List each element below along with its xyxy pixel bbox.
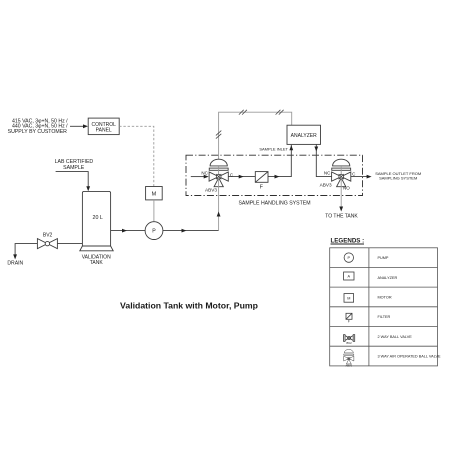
pump P [145, 222, 163, 240]
svg-text:M: M [347, 296, 350, 300]
wire: NC stub into ABV3-1 [191, 176, 205, 178]
svg-text:ABV3: ABV3 [345, 364, 352, 368]
wire: tank to BV2 [57, 243, 82, 245]
svg-text:Validation Tank with Motor, Pu: Validation Tank with Motor, Pump [120, 301, 258, 311]
supply label 415/440 VAC [8, 118, 69, 135]
sample handling system box (dash-dot) [186, 155, 363, 195]
svg-text:SAMPLING SYSTEM: SAMPLING SYSTEM [379, 176, 417, 181]
svg-text:NO: NO [343, 186, 350, 191]
svg-text:SAMPLE HANDLING SYSTEM: SAMPLE HANDLING SYSTEM [238, 200, 310, 206]
svg-text:ABV3: ABV3 [320, 183, 332, 188]
svg-text:ANALYZER: ANALYZER [291, 133, 317, 139]
svg-text:ANALYZER: ANALYZER [378, 276, 398, 280]
svg-text:SAMPLE: SAMPLE [63, 165, 85, 171]
air line break marks [216, 110, 284, 139]
wire: motor to pump [153, 200, 155, 222]
control panel box [88, 118, 119, 135]
svg-text:FILTER: FILTER [378, 315, 391, 319]
wire: ABV3-2 C to sample outlet [351, 176, 368, 178]
svg-text:TANK: TANK [90, 260, 104, 266]
legend 2-way ball valve symbol [345, 336, 349, 341]
valve ABV3-1 center [216, 174, 221, 179]
legend filter symbol [346, 313, 352, 319]
svg-text:A: A [348, 274, 351, 278]
wire: sample to tank [56, 172, 89, 187]
svg-text:F: F [348, 320, 350, 324]
analyzer box [287, 125, 321, 144]
wire: analyzer to ABV3-2 [316, 144, 331, 176]
motor M [146, 187, 163, 200]
wire: tank to pump [111, 230, 145, 232]
wire: ABV3-1 to filter [228, 176, 255, 178]
filter F [255, 172, 268, 183]
svg-text:LAB CERTIFIED: LAB CERTIFIED [55, 159, 94, 165]
legend table frame [330, 248, 438, 366]
wire: ABV3-2 to tank (gray riser) [340, 166, 342, 208]
svg-text:MOTOR: MOTOR [378, 296, 392, 300]
svg-text:P: P [152, 229, 156, 235]
svg-text:SAMPLE INLET: SAMPLE INLET [259, 147, 288, 152]
svg-text:NC: NC [324, 171, 331, 176]
validation tank [82, 191, 110, 246]
svg-text:NC: NC [201, 171, 208, 176]
legend 3-way air operated ball valve symbol [344, 349, 354, 364]
svg-text:PUMP: PUMP [378, 256, 389, 260]
svg-text:P: P [348, 256, 351, 260]
legend analyzer symbol [344, 272, 354, 280]
valve ABV3-1 body [209, 159, 228, 187]
air line: ABV3-1 dome to analyzer [219, 112, 292, 159]
wire: supply to control panel [70, 125, 84, 127]
svg-text:BV2: BV2 [346, 341, 352, 345]
wire: pump to ABV3-1 [163, 230, 219, 232]
svg-text:DRAIN: DRAIN [7, 261, 23, 267]
svg-text:TO THE TANK: TO THE TANK [325, 214, 358, 220]
wire: BV2 to drain [15, 244, 37, 255]
valve ABV3-2 center [339, 174, 344, 179]
wire: control panel to motor (dashed) [119, 126, 154, 186]
svg-text:3 WAY AIR OPERATED BALL VALVE: 3 WAY AIR OPERATED BALL VALVE [378, 355, 442, 359]
svg-text:ABV3: ABV3 [205, 188, 217, 193]
valve ABV3-2 body [332, 159, 351, 187]
svg-text:BV2: BV2 [43, 233, 53, 239]
svg-text:F: F [260, 184, 263, 190]
legend pump symbol [344, 253, 353, 262]
wire: riser pump to valve/dome (gray) [218, 166, 220, 231]
legend motor symbol [344, 294, 354, 303]
svg-text:SUPPLY BY CUSTOMER: SUPPLY BY CUSTOMER [8, 129, 68, 135]
svg-text:M: M [152, 191, 157, 197]
svg-text:2 WAY BALL VALVE: 2 WAY BALL VALVE [378, 335, 413, 339]
svg-text:20 L: 20 L [93, 215, 103, 221]
svg-text:PANEL: PANEL [96, 128, 112, 134]
wire: filter to analyzer (sample inlet) [268, 145, 291, 177]
